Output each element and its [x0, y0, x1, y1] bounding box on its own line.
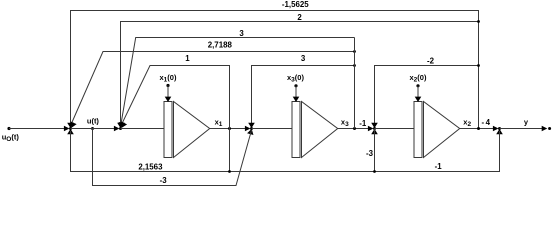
svg-text:-1,5625: -1,5625 — [282, 0, 309, 9]
wire x1 vertical from line 1 through node down to bottom line — [229, 66, 231, 172]
svg-text:3: 3 — [239, 29, 244, 38]
wire x1(0) down into I1 — [167, 86, 169, 98]
junction J4 (summing point before I2) — [250, 127, 253, 130]
wire feedback line gain -2 (horizontal y=65.5 from x2 vertical, drop into J5) — [375, 66, 479, 126]
node dot bottom line at x1 vertical — [228, 170, 231, 173]
svg-text:2,1563: 2,1563 — [138, 163, 163, 172]
wire x3(0) down into I2 — [295, 86, 297, 97]
wire bottom feedback line from x1 (gains 2,1563 / -3 / -1) — [71, 131, 500, 172]
wire main J6 to output — [500, 128, 544, 130]
svg-text:uO(t): uO(t) — [2, 133, 20, 143]
arrow into J2 from left — [114, 126, 120, 131]
integrator I3 triangle — [424, 102, 460, 158]
node x2(0) initial condition dot — [416, 84, 419, 87]
integrator I1 triangle — [174, 102, 210, 158]
arrow into J1 from left — [64, 126, 70, 131]
svg-text:3: 3 — [301, 54, 306, 63]
node dot line 3 (second) on x3 vertical — [353, 64, 356, 67]
svg-text:x1(0): x1(0) — [160, 73, 177, 83]
integrator I3 input rectangle — [414, 102, 422, 158]
arrow into J4 from left — [245, 126, 251, 131]
arrow into J6 from below (line -1) — [496, 129, 503, 134]
node x3 pickoff dot — [353, 127, 356, 130]
node x3(0) initial condition dot — [294, 84, 297, 87]
arrow into J4 from above (line 3 second) — [248, 123, 255, 128]
junction J6 (output summing point) — [498, 127, 501, 130]
wire x2(0) down into I3 — [417, 86, 419, 97]
node dot line -2 on x2 vertical — [477, 64, 480, 67]
svg-text:u(t): u(t) — [87, 117, 100, 126]
wire feedback line gain 2 (horizontal y=21.5, drop into J2, tap on x2 vertical) — [121, 22, 479, 126]
node dot line 2,7188 on x3 vertical — [353, 50, 356, 53]
wire feedforward line gain 3 (horizontal y=65.5 from x3 vertical, drop into J4) — [252, 66, 355, 126]
integrator I2 input rectangle — [292, 102, 300, 158]
node dot line 2 on x2 vertical — [477, 20, 480, 23]
svg-text:-1: -1 — [435, 162, 443, 171]
svg-text:1: 1 — [185, 54, 190, 63]
arrow into J2 diagonal (line 3) — [118, 122, 125, 128]
wire feedback line gain 3 (horizontal y=37.5 from x3 vertical, diagonal into J2) — [121, 38, 355, 126]
junction J2 (summing point) — [119, 127, 122, 130]
svg-text:-1: -1 — [359, 119, 367, 128]
node dot bottom line at J5 vertical — [373, 170, 376, 173]
arrow into J1 from above (line -1,5625) — [67, 123, 74, 128]
svg-text:-3: -3 — [366, 149, 374, 158]
wire feedback line gain 1 (horizontal y=65.5 from x1 vertical, diagonal into J2) — [121, 66, 229, 172]
svg-text:-4: -4 — [481, 118, 491, 127]
node x2 pickoff dot — [477, 127, 480, 130]
wire feedback line gain -1,5625 (top horizontal, left drop into J1, right pickoff from x2 node) — [71, 11, 479, 129]
wire feedback line gain 2,7188 (horizontal y=51.5 from x3 vertical, diagonal into J1) — [71, 52, 355, 126]
svg-text:x1: x1 — [215, 117, 223, 127]
arrow into J4 from below diagonal (line -3) — [247, 128, 255, 135]
junction J5 (summing point before I3) — [373, 127, 376, 130]
wire main I1 output to J4 — [210, 128, 248, 130]
wire main input u0 to junction J1 — [9, 128, 67, 130]
wire main J2 to integrator I1 input — [121, 128, 165, 130]
arrow x3(0) into I2 top — [293, 97, 300, 102]
wire main I3 output to J6 — [460, 128, 496, 130]
wire main I2 output to J5 — [338, 128, 371, 130]
wire J6 vertical down to bottom line — [499, 131, 501, 172]
arrow into J1 diagonal (line 2,7188) — [68, 122, 76, 130]
arrow x1(0) into I1 top — [165, 97, 172, 102]
svg-text:2,7188: 2,7188 — [208, 40, 233, 49]
wire bottom feedforward line gain -3 (u(t) down, right, diagonal into J4) — [93, 129, 252, 186]
svg-text:x3(0): x3(0) — [287, 73, 304, 83]
integrator I1 input rectangle — [164, 102, 172, 158]
arrow into J6 from left — [493, 126, 499, 131]
node x1 pickoff dot — [228, 127, 231, 130]
arrow x2(0) into I3 top — [415, 97, 422, 102]
svg-text:x2(0): x2(0) — [410, 73, 427, 83]
node x1(0) initial condition dot — [166, 84, 169, 87]
arrow into J1 from below (line 2,1563) — [67, 129, 74, 134]
svg-text:2: 2 — [297, 13, 302, 22]
arrow output y end — [542, 126, 548, 131]
node u(t) pickoff dot — [91, 127, 94, 130]
wire main J5 to integrator I3 input — [375, 128, 415, 130]
wire main J1 to J2 — [71, 128, 117, 130]
wire main J4 to integrator I2 input — [252, 128, 293, 130]
svg-text:y: y — [524, 118, 529, 127]
arrow into J2 diagonal (line 1) — [119, 122, 127, 130]
node output end dot — [548, 127, 551, 130]
arrow into J2 from above (line 2) — [117, 123, 124, 128]
svg-text:x2: x2 — [463, 117, 471, 127]
wire x3 vertical pickoff up to line 3 — [354, 38, 356, 129]
integrator I2 triangle — [302, 102, 338, 158]
arrow into J5 from below (vertical from bottom line) — [371, 129, 378, 134]
svg-text:-3: -3 — [160, 176, 168, 185]
arrow into J5 from above (line -2) — [371, 123, 378, 128]
junction J1 (summing point) — [69, 127, 72, 130]
svg-text:x3: x3 — [341, 117, 349, 127]
svg-text:-2: -2 — [427, 56, 435, 65]
node input u0(t) start dot — [7, 127, 10, 130]
arrow into J5 from left — [368, 126, 374, 131]
wire J5 vertical down to bottom line — [374, 129, 376, 172]
